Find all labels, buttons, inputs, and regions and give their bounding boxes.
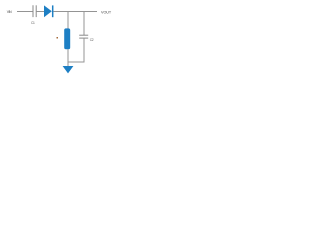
resistor (load, blue body) — [64, 28, 70, 49]
value marker — [57, 37, 59, 39]
svg-text:C2: C2 — [90, 38, 94, 42]
wire bottom C2 to ground node — [68, 61, 84, 63]
wire D1 to VOUT — [53, 11, 97, 13]
wire VIN to C1 — [17, 11, 33, 13]
ground — [63, 66, 74, 73]
svg-text:C1: C1 — [31, 21, 35, 25]
capacitor C2 — [79, 35, 94, 42]
wire C1 to D1 — [36, 11, 44, 13]
capacitor C1 — [31, 5, 36, 25]
wire C2 to bottom — [83, 38, 85, 62]
svg-text:VIN: VIN — [7, 10, 12, 14]
wire junction down to C2 — [83, 12, 85, 36]
svg-text:VOUT: VOUT — [101, 11, 112, 15]
wire resistor to ground node — [67, 49, 69, 66]
wire junction down to resistor — [67, 12, 69, 29]
diode D1 — [44, 5, 53, 17]
